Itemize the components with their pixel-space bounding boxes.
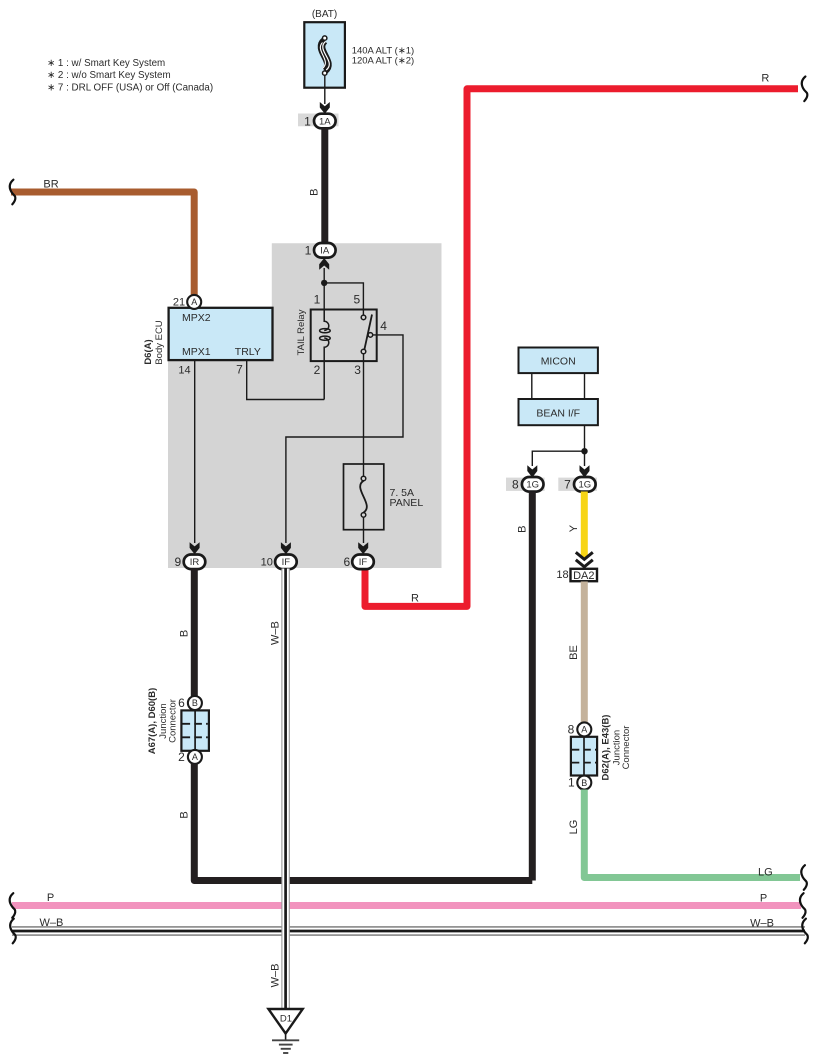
- highlight 1G(7): [558, 478, 597, 491]
- fuse symbol: [360, 481, 367, 513]
- wire fuse to IF(6): [363, 517, 365, 543]
- connector circle A: [577, 722, 591, 736]
- ground bars: [272, 1039, 299, 1041]
- wire W-B horizontal: [12, 927, 805, 935]
- svg-text:14: 14: [178, 364, 190, 376]
- fuse box 7.5A PANEL: [344, 464, 384, 530]
- svg-text:W–B: W–B: [750, 918, 774, 930]
- svg-text:6: 6: [178, 696, 185, 710]
- svg-text:B: B: [309, 189, 321, 196]
- wire node to 1G(8): [532, 451, 584, 466]
- relay block shaded panel: [168, 243, 442, 568]
- svg-text:1: 1: [568, 776, 575, 790]
- switch contact pin5: [361, 315, 366, 320]
- svg-text:R: R: [411, 592, 419, 604]
- svg-text:B: B: [179, 811, 191, 818]
- svg-text:2: 2: [314, 363, 321, 377]
- wire B (1G8 down, thick black): [529, 492, 536, 881]
- connector 1G (8): [522, 477, 544, 492]
- svg-text:P: P: [760, 893, 767, 905]
- svg-text:7: 7: [564, 478, 571, 492]
- connector IF (10): [275, 555, 297, 570]
- svg-text:IF: IF: [282, 557, 291, 568]
- svg-text:TRLY: TRLY: [235, 346, 261, 358]
- node dot: [581, 448, 587, 454]
- ground stem: [285, 1034, 287, 1041]
- arrow into 1A: [320, 102, 330, 114]
- svg-text:R: R: [761, 72, 769, 84]
- svg-text:B: B: [192, 698, 198, 708]
- svg-text:BR: BR: [43, 179, 58, 191]
- connector 1G (7): [574, 477, 596, 492]
- svg-text:1A: 1A: [319, 116, 331, 127]
- connector 1A: [314, 114, 336, 129]
- svg-text:IA: IA: [320, 246, 330, 257]
- svg-text:3: 3: [354, 363, 361, 377]
- wire fusible link to 1A: [324, 75, 326, 104]
- svg-text:A: A: [192, 752, 198, 762]
- break mark right LG: [801, 865, 807, 890]
- svg-text:BEAN I/F: BEAN I/F: [536, 407, 580, 419]
- svg-text:1G: 1G: [526, 480, 539, 491]
- svg-text:MPX2: MPX2: [182, 312, 211, 324]
- node junction dot: [321, 280, 327, 286]
- switch contact pin4: [368, 333, 373, 338]
- wire W-B vertical (white with black stripe): [282, 569, 290, 1010]
- arrow into 1G(7): [580, 465, 590, 477]
- relay box TAIL Relay: [311, 310, 377, 362]
- wire IA to node: [323, 268, 325, 283]
- svg-text:6: 6: [344, 555, 351, 569]
- svg-text:PANEL: PANEL: [390, 497, 424, 509]
- highlight 1G(8): [506, 478, 545, 491]
- ECU box D6(A): [169, 308, 273, 360]
- junction connector grid left: [181, 710, 209, 750]
- svg-text:W–B: W–B: [270, 621, 282, 645]
- svg-text:8: 8: [512, 478, 519, 492]
- svg-text:10: 10: [261, 557, 273, 569]
- svg-text:IR: IR: [190, 557, 200, 568]
- svg-text:D1: D1: [280, 1013, 292, 1024]
- svg-text:DA2: DA2: [573, 570, 594, 582]
- wire pin4 to IF(10): [286, 335, 403, 543]
- svg-text:W–B: W–B: [270, 964, 282, 988]
- wire node to coil pin1: [323, 283, 325, 322]
- break mark right W-B: [802, 919, 808, 944]
- arrow into IR: [190, 542, 200, 554]
- arrow into IF(6): [358, 542, 368, 554]
- svg-text:1G: 1G: [578, 480, 591, 491]
- svg-text:MPX1: MPX1: [182, 346, 211, 358]
- svg-text:7: 7: [236, 362, 243, 376]
- svg-text:1: 1: [304, 114, 311, 128]
- connector DA2: [571, 569, 598, 581]
- svg-text:9: 9: [175, 555, 182, 569]
- wire MICON to BEAN left: [531, 374, 533, 400]
- wire pin3 to fuse: [363, 353, 365, 477]
- connector circle B: [188, 696, 202, 710]
- connector IA: [314, 243, 336, 258]
- svg-text:TAIL Relay: TAIL Relay: [296, 309, 307, 355]
- svg-text:1: 1: [314, 293, 321, 307]
- svg-text:D6(A): D6(A): [143, 339, 154, 364]
- svg-text:A: A: [191, 297, 197, 307]
- break mark left W-B: [10, 919, 16, 944]
- fusible link box: [304, 22, 345, 88]
- MICON box: [519, 348, 598, 374]
- svg-text:P: P: [47, 892, 54, 904]
- wire B (IR down to junction, thick black): [191, 569, 198, 697]
- svg-text:2: 2: [178, 750, 185, 764]
- wire B (battery to IA, thick black): [321, 128, 328, 245]
- wire MICON to BEAN right: [584, 374, 586, 400]
- highlight 1A: [298, 114, 339, 127]
- junction connector grid right: [571, 737, 597, 776]
- connector circle B: [577, 776, 591, 790]
- fusible link symbol: [321, 41, 327, 71]
- relay coil: [324, 310, 329, 400]
- svg-text:18: 18: [556, 569, 568, 581]
- break mark left BR: [10, 180, 16, 205]
- svg-text:∗ 1 : w/ Smart Key System: ∗ 1 : w/ Smart Key System: [47, 58, 165, 69]
- svg-text:A: A: [581, 725, 587, 735]
- wire BR (brown): [11, 192, 194, 295]
- wire BEAN to node: [584, 426, 586, 467]
- wire B (junction down, corner, to 1G8; thick black): [194, 764, 532, 881]
- svg-text:D62(A), E43(B): D62(A), E43(B): [600, 715, 611, 781]
- wire Y (yellow): [581, 492, 588, 559]
- svg-text:21: 21: [173, 297, 185, 309]
- wire BE (beige): [581, 582, 588, 723]
- wire pin5 inside relay: [362, 310, 364, 316]
- svg-text:∗ 7 : DRL OFF (USA) or Off (Ca: ∗ 7 : DRL OFF (USA) or Off (Canada): [47, 82, 213, 93]
- svg-text:(BAT): (BAT): [312, 9, 337, 20]
- arrow up into IA: [319, 258, 329, 270]
- svg-text:IF: IF: [359, 557, 368, 568]
- svg-text:8: 8: [568, 723, 575, 737]
- svg-text:Body ECU: Body ECU: [154, 320, 165, 364]
- break mark left P: [10, 893, 16, 918]
- ground D1 triangle: [268, 1009, 302, 1034]
- svg-text:Connector: Connector: [168, 699, 179, 743]
- break mark right P: [800, 893, 806, 918]
- svg-text:A67(A), D60(B): A67(A), D60(B): [147, 688, 158, 755]
- svg-text:W–B: W–B: [39, 917, 63, 929]
- break mark right R: [802, 77, 808, 102]
- wire LG (green): [584, 790, 800, 878]
- wire pin14 to IR: [194, 361, 196, 544]
- connector circle A: [188, 750, 202, 764]
- svg-text:Y: Y: [568, 524, 580, 532]
- arrow into IF(10): [281, 542, 291, 554]
- svg-text:MICON: MICON: [541, 355, 576, 367]
- svg-text:5: 5: [353, 293, 360, 307]
- svg-text:LG: LG: [568, 820, 580, 835]
- wire R (red): [365, 89, 798, 607]
- connector circle A (pin21): [187, 295, 201, 309]
- wire pin2 to pin7 TRLY: [247, 361, 325, 400]
- svg-text:4: 4: [380, 319, 387, 333]
- arrow into 1G(8): [527, 465, 537, 477]
- connector IF (6): [352, 555, 374, 570]
- svg-text:B: B: [516, 526, 528, 533]
- wire node to pin5: [324, 283, 363, 311]
- svg-text:∗ 2 : w/o Smart Key System: ∗ 2 : w/o Smart Key System: [47, 70, 171, 81]
- double chevron arrow: [576, 552, 593, 559]
- svg-text:B: B: [581, 778, 587, 788]
- svg-text:B: B: [179, 630, 191, 637]
- connector IR: [184, 555, 206, 570]
- svg-text:1: 1: [305, 244, 312, 258]
- svg-text:LG: LG: [758, 866, 773, 878]
- svg-text:BE: BE: [568, 645, 580, 660]
- svg-text:120A ALT (∗2): 120A ALT (∗2): [352, 56, 415, 67]
- wire P (pink): [12, 902, 801, 909]
- svg-text:Connector: Connector: [621, 726, 632, 770]
- switch contact pin3: [361, 349, 366, 354]
- relay switch blade: [364, 315, 372, 352]
- BEAN I/F box: [519, 399, 598, 425]
